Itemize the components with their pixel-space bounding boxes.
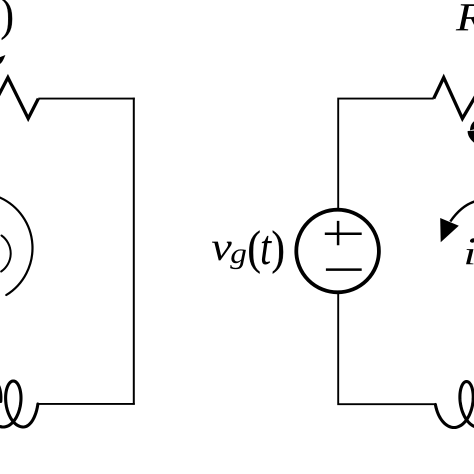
inductor L (right circuit, partial coil): [435, 382, 474, 428]
wire: bottom lead of source and bottom side of right mesh: [338, 293, 436, 405]
wire: top lead from source to resistor (right mesh): [338, 99, 434, 210]
arrowhead arc stub (partial, right edge) of curved arrow near resistor R: [470, 121, 474, 130]
wire: right side of left mesh: [133, 98, 135, 405]
resistor R1 (left circuit, partial): [0, 78, 38, 119]
voltage source V1: circle: [296, 210, 379, 293]
arrowhead lower lobe (partial, right edge) near resistor R: [468, 131, 474, 143]
label R (right circuit resistor, partially cut at right edge): [456, 4, 474, 30]
current arrow i: curved arc: [450, 202, 474, 222]
label: closing paren of left source label (cut off at top edge): [2, 0, 12, 40]
voltage source V1: minus sign: [326, 268, 362, 271]
source arc: outer arc of left source circle (cut by left edge): [0, 198, 32, 295]
wire: bottom side of left mesh: [38, 403, 135, 405]
label v_g(t): subscript g: [230, 249, 246, 269]
wire: top side of left mesh: [38, 98, 135, 100]
label v_g(t): t: [262, 236, 272, 265]
label i: dot: [469, 238, 474, 244]
arrowhead (partial, left edge) of curved arrow near resistor R1: [0, 55, 5, 64]
label v_g(t): close paren: [273, 230, 283, 273]
current arrow i: arrowhead: [440, 218, 459, 242]
label v_g(t): v: [212, 242, 232, 261]
resistor R (right circuit, partial): [434, 78, 474, 119]
label v_g(t): open paren: [249, 230, 259, 273]
voltage source V1: plus sign: [325, 221, 362, 245]
inductor L1 (left circuit, partial coil): [0, 381, 38, 427]
source arc: inner small arc (left source, cut by left edge): [1, 236, 11, 272]
label i (mesh current, partially cut at right edge): body: [466, 249, 474, 264]
